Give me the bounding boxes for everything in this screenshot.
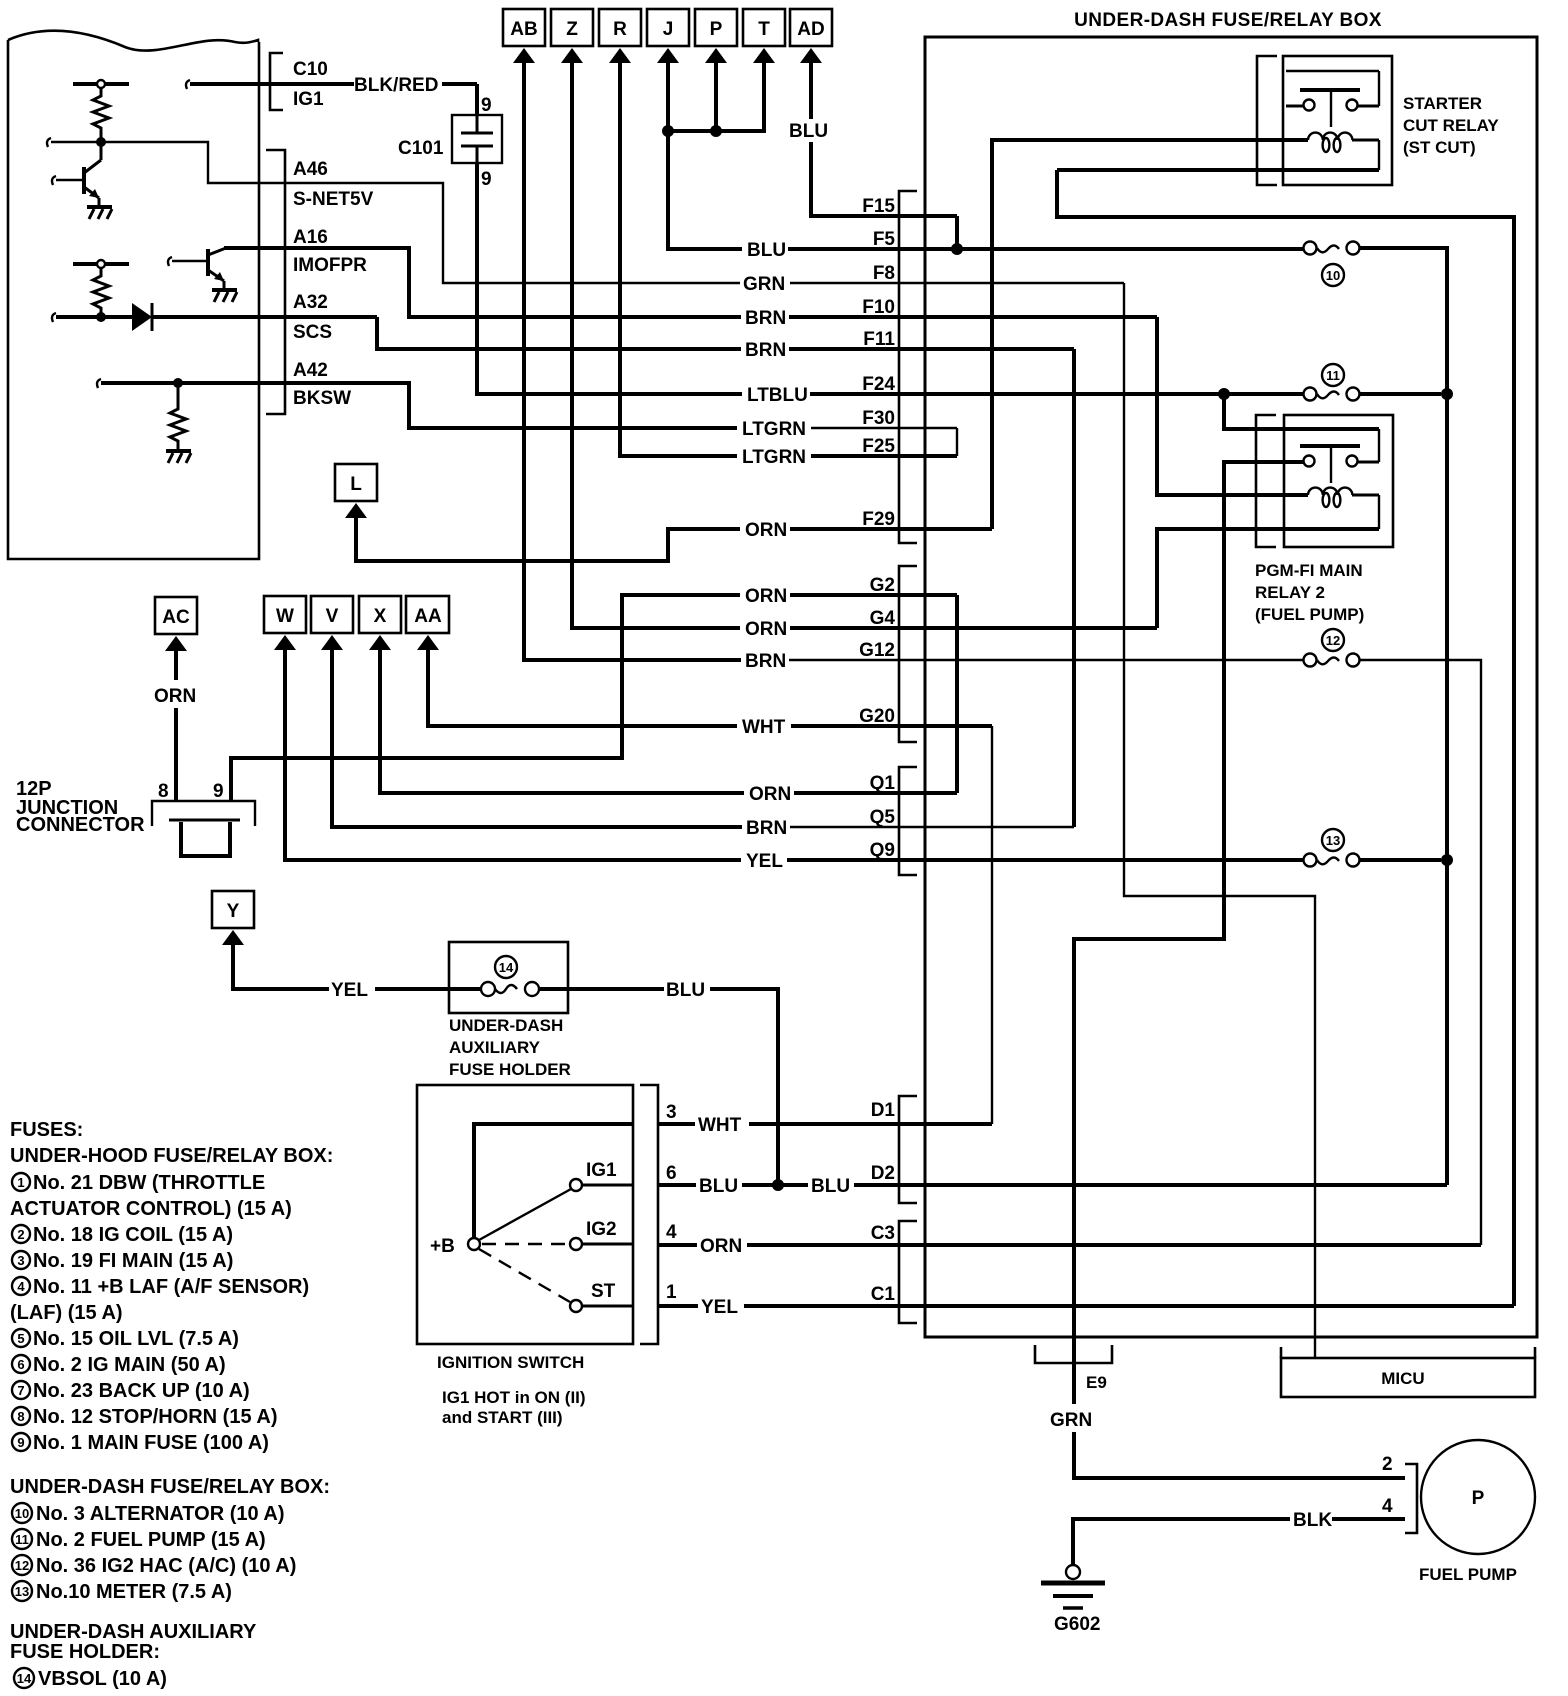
svg-text:D2: D2: [871, 1163, 895, 1184]
svg-text:3: 3: [666, 1102, 677, 1123]
wire pin1 to C1 (YEL): [658, 1304, 1514, 1308]
12P junction connector: [152, 801, 255, 856]
arrow into X: [369, 635, 391, 650]
svg-text:Y: Y: [227, 901, 240, 922]
svg-text:F5: F5: [873, 229, 896, 250]
ground (transistor Q2 emitter): [212, 290, 237, 302]
svg-text:SCS: SCS: [293, 322, 332, 343]
wire W to Q9 (YEL): [285, 647, 1304, 860]
svg-text:Q1: Q1: [870, 773, 896, 794]
connector bracket A (ECM pins): [266, 150, 285, 414]
svg-text:YEL: YEL: [746, 851, 783, 872]
svg-text:3: 3: [17, 1253, 24, 1268]
diode D1: [132, 303, 152, 331]
junction dot bus fuse13: [1441, 854, 1453, 866]
svg-text:W: W: [276, 606, 294, 627]
ignition switch bracket: [640, 1085, 658, 1344]
svg-text:ORN: ORN: [154, 686, 196, 707]
svg-text:YEL: YEL: [701, 1297, 738, 1318]
connector box Y: [212, 891, 254, 928]
svg-text:1: 1: [17, 1175, 24, 1190]
wire node1 to A46: [51, 142, 259, 183]
fuse legend auxiliary header: [10, 1621, 257, 1663]
svg-text:No. 2 FUEL PUMP (15 A): No. 2 FUEL PUMP (15 A): [36, 1529, 266, 1551]
svg-text:14: 14: [499, 960, 514, 975]
svg-text:AC: AC: [162, 607, 190, 628]
wire C101 to F24 (LTBLU): [477, 163, 1304, 394]
fuse legend item 11: [12, 1529, 266, 1551]
connector box X: [359, 596, 401, 633]
arrow into Z: [561, 48, 583, 63]
svg-text:9: 9: [481, 169, 492, 190]
wire AA to G20 (WHT): [428, 647, 992, 726]
svg-text:BLK: BLK: [1293, 1510, 1332, 1531]
arrow into W: [274, 635, 296, 650]
ground G602: [1041, 1565, 1105, 1608]
starter cut relay U1: [1283, 56, 1392, 185]
svg-text:E9: E9: [1086, 1373, 1107, 1392]
svg-text:UNDER-DASH FUSE/RELAY BOX:: UNDER-DASH FUSE/RELAY BOX:: [10, 1476, 330, 1498]
wire G20 to D1 jumper: [991, 726, 993, 1124]
svg-text:RELAY 2: RELAY 2: [1255, 583, 1325, 602]
connector box AA: [406, 596, 449, 633]
wire P column: [714, 60, 718, 131]
fuse legend item 10: [12, 1503, 285, 1525]
svg-text:ORN: ORN: [749, 784, 791, 805]
svg-text:ORN: ORN: [745, 520, 787, 541]
svg-text:BRN: BRN: [745, 340, 786, 361]
wire fuse 13 to bus: [1360, 858, 1441, 862]
svg-text:2: 2: [1382, 1454, 1393, 1475]
svg-text:+B: +B: [430, 1236, 455, 1257]
under-dash fuse/relay box: [925, 37, 1537, 1337]
wire J to F5 (BLU): [668, 60, 1304, 249]
connector box P: [695, 9, 737, 46]
wire L to F29 (ORN): [356, 515, 992, 561]
fuse legend item 3: [12, 1250, 233, 1272]
svg-text:F15: F15: [862, 196, 895, 217]
wire BLK/RED (IG1 to C101): [442, 84, 477, 115]
wire junction pin 9 to G2 (ORN): [231, 595, 957, 801]
svg-text:LTBLU: LTBLU: [747, 385, 808, 406]
svg-text:BLU: BLU: [789, 121, 828, 142]
svg-text:UNDER-DASH AUXILIARY: UNDER-DASH AUXILIARY: [10, 1621, 257, 1643]
junction dot P column: [710, 125, 722, 137]
wire F30/F25 jumper: [956, 428, 958, 456]
arrow into V: [321, 635, 343, 650]
wire X to Q1 (ORN): [380, 647, 957, 793]
connector box V: [311, 596, 353, 633]
wire fuel pump pin 4 to G602 (BLK): [1073, 1519, 1405, 1565]
svg-text:4: 4: [17, 1279, 25, 1294]
svg-text:MICU: MICU: [1381, 1369, 1424, 1388]
svg-text:ORN: ORN: [745, 586, 787, 607]
IG2 contact: [570, 1219, 633, 1250]
resistor R3: [170, 383, 186, 449]
svg-text:S-NET5V: S-NET5V: [293, 189, 374, 210]
wire AC to junction pin 8 (ORN): [174, 648, 178, 801]
junction dot bus fuse11: [1441, 388, 1453, 400]
svg-text:7: 7: [17, 1383, 24, 1398]
svg-text:BLU: BLU: [811, 1176, 850, 1197]
svg-text:IMOFPR: IMOFPR: [293, 255, 367, 276]
svg-text:V: V: [326, 606, 339, 627]
svg-text:Z: Z: [566, 19, 578, 40]
connector bracket G: [899, 566, 917, 742]
wire V to Q5 (BRN): [332, 647, 1074, 827]
svg-text:(FUEL PUMP): (FUEL PUMP): [1255, 605, 1364, 624]
svg-text:13: 13: [15, 1584, 29, 1599]
svg-text:LTGRN: LTGRN: [742, 419, 806, 440]
svg-text:5: 5: [17, 1331, 24, 1346]
fuse legend item 9: [12, 1432, 269, 1454]
fuse legend item 8: [12, 1406, 278, 1428]
svg-text:F30: F30: [862, 408, 895, 429]
svg-text:F24: F24: [862, 374, 895, 395]
svg-text:10: 10: [1326, 268, 1340, 283]
connector box Z: [551, 9, 593, 46]
svg-text:BLK/RED: BLK/RED: [354, 75, 438, 96]
wire AB to G12 (BRN): [524, 60, 1307, 660]
svg-text:F11: F11: [863, 329, 895, 350]
svg-text:AB: AB: [510, 19, 537, 40]
connector bracket C: [899, 1221, 917, 1323]
svg-text:G2: G2: [870, 575, 895, 596]
svg-text:F25: F25: [862, 436, 895, 457]
fuse 10: [1304, 242, 1360, 255]
fuse legend item 12: [12, 1555, 296, 1577]
svg-text:No. 19 FI MAIN (15 A): No. 19 FI MAIN (15 A): [33, 1250, 233, 1272]
svg-text:UNDER-DASH FUSE/RELAY BOX: UNDER-DASH FUSE/RELAY BOX: [1074, 10, 1382, 31]
connector box AC: [155, 597, 197, 634]
wire relay2 bottom to G4: [1157, 529, 1379, 628]
wire F11 to Q5: [1072, 349, 1076, 827]
fuel pump motor P: [1421, 1440, 1535, 1554]
fuse 11: [1304, 388, 1360, 401]
svg-text:ACTUATOR CONTROL) (15 A): ACTUATOR CONTROL) (15 A): [10, 1198, 292, 1220]
fuse legend item 4: [10, 1276, 309, 1324]
svg-text:F8: F8: [873, 263, 895, 284]
fuse legend item 1: [10, 1172, 292, 1220]
connector bracket Q: [899, 767, 917, 875]
svg-text:C101: C101: [398, 138, 444, 159]
dashed blade to ST: [479, 1249, 570, 1302]
svg-text:9: 9: [481, 95, 492, 116]
connector box W: [264, 596, 306, 633]
svg-text:VBSOL (10 A): VBSOL (10 A): [38, 1668, 167, 1690]
svg-text:GRN: GRN: [743, 274, 785, 295]
wire F24 dot to relay2 top: [1224, 394, 1379, 429]
transistor Q1: [52, 142, 101, 205]
svg-text:IG2: IG2: [586, 1219, 617, 1240]
connector box AB: [503, 9, 545, 46]
wire pin4 to C3 (ORN): [658, 1243, 1481, 1247]
svg-text:6: 6: [17, 1357, 24, 1372]
fuse legend item 6: [12, 1354, 226, 1376]
svg-text:G4: G4: [870, 608, 896, 629]
svg-text:G12: G12: [859, 640, 895, 661]
svg-text:Q9: Q9: [870, 840, 895, 861]
arrow into L: [345, 503, 367, 518]
svg-text:No. 21 DBW (THROTTLE: No. 21 DBW (THROTTLE: [33, 1172, 265, 1194]
PGM-FI relay bracket: [1256, 415, 1276, 547]
svg-text:2: 2: [17, 1227, 24, 1242]
fuel pump bracket: [1405, 1464, 1417, 1533]
junction dot J column: [662, 125, 674, 137]
svg-text:C3: C3: [871, 1223, 895, 1244]
svg-text:G20: G20: [859, 706, 895, 727]
svg-text:ST: ST: [591, 1281, 616, 1302]
svg-text:STARTER: STARTER: [1403, 94, 1482, 113]
node dot 3: [173, 378, 183, 388]
PGM-FI main relay 2 U2: [1284, 415, 1393, 547]
arrow into AA: [417, 635, 439, 650]
wire +B to pin 3: [474, 1124, 633, 1238]
starter cut relay bracket: [1257, 56, 1277, 185]
svg-text:No. 12 STOP/HORN (15 A): No. 12 STOP/HORN (15 A): [33, 1406, 278, 1428]
wire pin6 to D2 (BLU): [658, 1183, 1447, 1187]
svg-text:10: 10: [15, 1506, 29, 1521]
svg-text:WHT: WHT: [698, 1115, 742, 1136]
svg-text:CUT RELAY: CUT RELAY: [1403, 116, 1499, 135]
svg-text:A16: A16: [293, 227, 328, 248]
svg-text:A46: A46: [293, 159, 328, 180]
svg-text:R: R: [613, 19, 627, 40]
wire Z to G4 (ORN): [572, 60, 1157, 628]
svg-text:and START (III): and START (III): [442, 1408, 563, 1427]
svg-text:IG1: IG1: [293, 89, 324, 110]
svg-text:A42: A42: [293, 360, 328, 381]
resistor R1: [93, 88, 109, 138]
svg-text:No. 11 +B LAF (A/F SENSOR): No. 11 +B LAF (A/F SENSOR): [33, 1276, 309, 1298]
connector bracket C10: [270, 53, 283, 110]
wire relay2 contact to E9: [1074, 462, 1303, 1404]
arrow into T: [753, 48, 775, 63]
svg-text:9: 9: [17, 1435, 24, 1450]
svg-text:BRN: BRN: [746, 818, 787, 839]
wire F8 to MICU: [1124, 283, 1315, 1358]
supply rail 2: [73, 260, 129, 268]
svg-text:IG1 HOT in ON (II): IG1 HOT in ON (II): [442, 1388, 586, 1407]
under-dash auxiliary fuse holder box: [449, 942, 568, 1013]
arrow into R: [609, 48, 631, 63]
connector bracket F: [899, 191, 917, 543]
svg-text:FUSE HOLDER:: FUSE HOLDER:: [10, 1641, 160, 1663]
fuse 12: [1304, 654, 1360, 667]
svg-text:6: 6: [666, 1163, 677, 1184]
fuse legend item 2: [12, 1224, 233, 1246]
fuse legend item 7: [12, 1380, 250, 1402]
svg-text:(ST CUT): (ST CUT): [1403, 138, 1476, 157]
fuse 14 number: [495, 956, 517, 978]
svg-text:ORN: ORN: [700, 1236, 742, 1257]
svg-text:No. 1 MAIN FUSE (100 A): No. 1 MAIN FUSE (100 A): [33, 1432, 269, 1454]
svg-text:ORN: ORN: [745, 619, 787, 640]
IG1 contact: [570, 1160, 633, 1191]
svg-text:C10: C10: [293, 59, 328, 80]
fuse 10 number: [1322, 264, 1344, 286]
wire fuse 10 to bus: [1360, 248, 1447, 394]
connector E9: [1035, 1345, 1112, 1363]
wire relay contact to C1: [1057, 170, 1514, 1306]
svg-text:X: X: [374, 606, 387, 627]
switch blade to IG1: [479, 1189, 571, 1240]
fuse 11 number: [1322, 364, 1344, 386]
fuse legend item 13: [12, 1581, 232, 1603]
svg-text:8: 8: [158, 781, 169, 802]
wire F29 to relay coil: [992, 140, 1308, 529]
wire C10/IG1 pin: [186, 80, 354, 89]
wire node2 to diode: [52, 313, 132, 322]
svg-text:P: P: [1472, 1488, 1485, 1509]
fuses legend: [10, 1119, 333, 1167]
svg-text:4: 4: [666, 1222, 677, 1243]
svg-text:F10: F10: [862, 297, 895, 318]
svg-text:13: 13: [1326, 833, 1340, 848]
wire F10 to relay2 coil: [1157, 317, 1308, 495]
wire A46 to F8 (GRN): [259, 183, 1124, 283]
svg-text:D1: D1: [871, 1100, 896, 1121]
wire A42/BKSW internal: [97, 379, 259, 388]
svg-text:1: 1: [666, 1282, 677, 1303]
svg-text:AUXILIARY: AUXILIARY: [449, 1038, 541, 1057]
svg-text:No. 18 IG COIL (15 A): No. 18 IG COIL (15 A): [33, 1224, 233, 1246]
connector box R: [599, 9, 641, 46]
svg-text:BKSW: BKSW: [293, 388, 351, 409]
connector box J: [647, 9, 689, 46]
svg-text:BRN: BRN: [745, 308, 786, 329]
svg-text:11: 11: [1326, 368, 1340, 383]
junction dot F24/relay2: [1218, 388, 1230, 400]
svg-text:BRN: BRN: [745, 651, 786, 672]
svg-text:11: 11: [15, 1532, 29, 1547]
svg-text:12: 12: [1326, 633, 1340, 648]
svg-text:IG1: IG1: [586, 1160, 617, 1181]
junction dot D2: [772, 1179, 784, 1191]
fuse 13 number: [1322, 829, 1344, 851]
wire Y to fuse 14 (YEL): [233, 942, 481, 989]
wire A42 to F30 (LTGRN): [259, 383, 957, 428]
wire stub squiggle 1: [47, 138, 51, 147]
svg-text:FUSE HOLDER: FUSE HOLDER: [449, 1060, 571, 1079]
fuse 14 symbol: [481, 982, 539, 996]
connector bracket D: [899, 1096, 917, 1203]
svg-text:12: 12: [15, 1558, 29, 1573]
svg-text:FUEL PUMP: FUEL PUMP: [1419, 1565, 1517, 1584]
connector box AD: [790, 9, 832, 46]
svg-text:GRN: GRN: [1050, 1410, 1092, 1431]
ECM/PCM box (torn-edge block): [8, 31, 259, 559]
svg-text:IGNITION SWITCH: IGNITION SWITCH: [437, 1353, 584, 1372]
wire fuse 12 to C3: [1360, 660, 1481, 1245]
svg-text:8: 8: [17, 1409, 24, 1424]
connector C101: [452, 115, 502, 163]
wire A16 to F10 (BRN): [259, 248, 1157, 317]
svg-text:9: 9: [213, 781, 224, 802]
svg-text:F29: F29: [862, 509, 895, 530]
transistor Q2: [168, 248, 259, 288]
svg-text:14: 14: [17, 1671, 32, 1686]
fuse legend item 14: [14, 1668, 167, 1690]
junction dot F15/F5: [951, 243, 963, 255]
wire bus down to D2: [1445, 394, 1449, 1185]
arrow into AB: [513, 48, 535, 63]
svg-text:LTGRN: LTGRN: [742, 447, 806, 468]
svg-text:Q5: Q5: [870, 807, 896, 828]
connector box L: [335, 464, 377, 501]
wire fuse 14 to D2 junction (BLU): [539, 989, 778, 1185]
svg-text:(LAF) (15 A): (LAF) (15 A): [10, 1302, 123, 1324]
ground (transistor Q1 emitter): [87, 207, 112, 219]
wire F15 to F5 jumper: [955, 216, 959, 249]
wire A32 to F11 (BRN): [259, 317, 1074, 349]
svg-text:No. 23 BACK UP (10 A): No. 23 BACK UP (10 A): [33, 1380, 250, 1402]
wire R to F25 (LTGRN): [620, 60, 957, 456]
ignition switch box: [417, 1085, 633, 1344]
node dot 1: [96, 137, 106, 147]
wire pin3 to D1 (WHT): [658, 1122, 992, 1126]
svg-text:UNDER-HOOD FUSE/RELAY BOX:: UNDER-HOOD FUSE/RELAY BOX:: [10, 1145, 333, 1167]
wire fuse 11 to bus: [1360, 392, 1441, 396]
svg-text:PGM-FI MAIN: PGM-FI MAIN: [1255, 561, 1363, 580]
ST contact: [570, 1281, 633, 1312]
fuse 13: [1304, 854, 1360, 867]
svg-text:G602: G602: [1054, 1614, 1100, 1635]
wire T column: [668, 60, 764, 131]
svg-text:UNDER-DASH: UNDER-DASH: [449, 1016, 563, 1035]
wire AD to F15 (BLU): [811, 60, 957, 216]
svg-text:No. 2 IG MAIN (50 A): No. 2 IG MAIN (50 A): [33, 1354, 226, 1376]
ground (pull-down resistor): [166, 451, 191, 463]
svg-text:BLU: BLU: [747, 240, 786, 261]
svg-text:A32: A32: [293, 292, 328, 313]
resistor R2: [93, 268, 109, 314]
svg-text:P: P: [710, 19, 723, 40]
svg-text:AD: AD: [797, 19, 824, 40]
wire E9 to fuel pump pin 2: [1074, 1432, 1405, 1478]
supply rail 1: [73, 80, 129, 88]
dashed blade to IG2: [482, 1243, 568, 1245]
wire G2 to Q1 jumper: [955, 595, 959, 793]
svg-text:No. 3 ALTERNATOR (10 A): No. 3 ALTERNATOR (10 A): [36, 1503, 285, 1525]
svg-text:BLU: BLU: [699, 1176, 738, 1197]
svg-text:BLU: BLU: [666, 980, 705, 1001]
svg-text:L: L: [350, 474, 362, 495]
svg-text:4: 4: [1382, 1496, 1393, 1517]
svg-text:WHT: WHT: [742, 717, 786, 738]
arrow into AC: [165, 636, 187, 651]
wire diode to A32: [152, 315, 259, 319]
fuse 12 number: [1322, 629, 1344, 651]
connector box T: [743, 9, 785, 46]
+B contact: [430, 1236, 480, 1257]
arrow into Y: [222, 930, 244, 945]
svg-text:No. 15 OIL LVL (7.5 A): No. 15 OIL LVL (7.5 A): [33, 1328, 239, 1350]
arrow into AD: [800, 48, 822, 63]
MICU box: [1281, 1347, 1535, 1397]
arrow into P: [705, 48, 727, 63]
svg-text:T: T: [758, 19, 770, 40]
node dot 2: [96, 312, 106, 322]
svg-text:No. 36 IG2 HAC (A/C) (10 A): No. 36 IG2 HAC (A/C) (10 A): [36, 1555, 296, 1577]
svg-text:AA: AA: [414, 606, 442, 627]
arrow into J: [657, 48, 679, 63]
svg-text:J: J: [663, 19, 674, 40]
svg-text:C1: C1: [871, 1284, 896, 1305]
svg-text:No.10 METER (7.5 A): No.10 METER (7.5 A): [36, 1581, 232, 1603]
svg-text:FUSES:: FUSES:: [10, 1119, 83, 1141]
fuse legend item 5: [12, 1328, 239, 1350]
